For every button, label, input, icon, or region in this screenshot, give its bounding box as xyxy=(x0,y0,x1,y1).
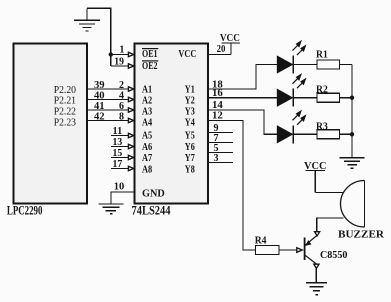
pin label 12 xyxy=(212,111,223,122)
label R2 xyxy=(316,85,328,96)
pin label 3 xyxy=(214,153,219,164)
svg-text:Y4: Y4 xyxy=(185,117,195,128)
svg-text:Y1: Y1 xyxy=(185,85,195,96)
wire P2.20 to A1 xyxy=(87,88,128,90)
pin arrow A6 xyxy=(128,144,133,148)
resistor R4 xyxy=(256,246,280,255)
transistor Q1 C8550 xyxy=(305,236,317,265)
svg-text:A3: A3 xyxy=(142,106,152,117)
ground for OE pins xyxy=(74,8,100,31)
ground for LED rail xyxy=(340,158,365,169)
svg-text:R4: R4 xyxy=(255,236,267,247)
MCU LPC2290 box xyxy=(14,44,88,204)
wire R1 to rail xyxy=(340,64,353,66)
wire stub A7 xyxy=(111,157,128,159)
wire R3 to rail xyxy=(340,133,353,135)
wire LED rail xyxy=(351,65,353,158)
pin label 10 xyxy=(114,182,125,193)
svg-text:16: 16 xyxy=(212,88,223,99)
wire P2.23 to A4 xyxy=(87,120,128,122)
svg-text:13: 13 xyxy=(113,137,123,148)
svg-text:P2.23: P2.23 xyxy=(54,118,76,129)
svg-text:Y8: Y8 xyxy=(185,164,195,175)
pin label 5 xyxy=(214,143,219,154)
LED D2 xyxy=(278,75,306,107)
pin label 17 xyxy=(113,159,123,170)
wire LED2 to R2 xyxy=(293,97,317,99)
pin name GND (pin 10) xyxy=(142,188,165,199)
pin name Y8 xyxy=(185,164,195,175)
pin arrow A7 xyxy=(128,155,133,159)
svg-text:20: 20 xyxy=(217,44,226,55)
svg-text:OE2: OE2 xyxy=(142,61,158,72)
svg-text:74LS244: 74LS244 xyxy=(132,204,172,218)
svg-text:R3: R3 xyxy=(316,121,328,132)
wire collector to ground xyxy=(315,268,317,282)
pin name Y1 xyxy=(185,85,195,96)
svg-text:P2.21: P2.21 xyxy=(54,96,76,107)
junction node rail-R2 xyxy=(350,96,354,100)
svg-text:39: 39 xyxy=(94,80,105,91)
label R4 xyxy=(255,236,267,247)
wire stub A8 xyxy=(111,168,128,170)
svg-text:6: 6 xyxy=(119,101,124,112)
pin arrow OE2 xyxy=(128,64,133,68)
label R1 xyxy=(316,49,328,60)
wire P2.21 to A2 xyxy=(87,99,128,101)
svg-text:OE1: OE1 xyxy=(142,49,158,60)
net label 42 xyxy=(94,111,105,122)
resistor R3 xyxy=(317,130,340,139)
wire pin 20 xyxy=(208,54,231,56)
buffer U1 74LS244 box xyxy=(135,44,209,204)
pin name A4 xyxy=(142,117,152,128)
pin label 18 xyxy=(212,80,223,91)
svg-text:19: 19 xyxy=(114,56,124,67)
wire LED3 to R3 xyxy=(293,133,317,135)
ground for pin 10 xyxy=(99,204,124,214)
pin label 1 xyxy=(119,45,124,56)
wire stub Y5 xyxy=(208,132,233,134)
wire Y1 pin 18 to LED1 xyxy=(208,65,278,90)
svg-text:11: 11 xyxy=(113,126,123,137)
resistor R2 xyxy=(317,93,340,102)
wire Y3 pin 14 to LED3 xyxy=(208,110,278,134)
svg-text:14: 14 xyxy=(212,100,223,111)
pin arrow A8 xyxy=(128,166,133,170)
svg-text:1: 1 xyxy=(119,45,124,56)
pin label 15 xyxy=(113,148,123,159)
wire GND pin 10 xyxy=(111,192,135,204)
pin name Y6 xyxy=(185,142,195,153)
pin name A6 xyxy=(142,142,152,153)
svg-text:VCC: VCC xyxy=(178,49,196,60)
svg-text:17: 17 xyxy=(113,159,123,170)
pin arrow A4 xyxy=(128,118,133,122)
svg-text:41: 41 xyxy=(94,101,105,112)
pin name A7 xyxy=(142,153,152,164)
label 74LS244 xyxy=(132,204,172,218)
LED D1 xyxy=(278,42,306,74)
pin name Y5 xyxy=(185,131,195,142)
pin arrow base xyxy=(297,248,302,253)
pin arrow A3 xyxy=(128,108,133,112)
pin label 6 xyxy=(119,101,124,112)
pin label 19 xyxy=(114,56,124,67)
svg-text:A7: A7 xyxy=(142,153,152,164)
pin arrow A5 xyxy=(128,133,133,137)
pin name A5 xyxy=(142,131,152,142)
pin label 4 xyxy=(119,90,124,101)
pin name A1 xyxy=(142,85,152,96)
svg-text:P2.22: P2.22 xyxy=(54,107,76,118)
wire stub A6 xyxy=(111,146,128,148)
port label P2.22 xyxy=(54,107,76,118)
svg-text:A5: A5 xyxy=(142,131,152,142)
wire stub Y7 xyxy=(208,152,233,154)
svg-text:Y5: Y5 xyxy=(185,131,195,142)
connector arrow buzzer-emitter xyxy=(315,232,320,236)
pin arrow A1 xyxy=(128,87,133,91)
pin name Y4 xyxy=(185,117,195,128)
svg-text:2: 2 xyxy=(119,80,124,91)
svg-text:A1: A1 xyxy=(142,85,152,96)
VCC rail for U1 xyxy=(220,33,240,44)
pin name A2 xyxy=(142,95,152,106)
pin label 2 xyxy=(119,80,124,91)
VCC bar symbol xyxy=(222,43,241,55)
wire stub A5 xyxy=(111,135,128,137)
wire buzzer bottom to transistor emitter xyxy=(317,218,344,232)
pin name OE2 (active low) xyxy=(142,60,158,72)
port label P2.20 xyxy=(54,85,76,96)
wire VCC to buzzer top xyxy=(315,192,343,194)
wire Y2 pin 16 to LED2 xyxy=(208,97,278,99)
pin name VCC (pin 20) xyxy=(178,49,196,60)
pin label 20 xyxy=(217,44,226,55)
svg-text:BUZZER: BUZZER xyxy=(338,230,385,241)
svg-text:42: 42 xyxy=(94,111,105,122)
wire pin 1 xyxy=(111,54,128,56)
port label P2.23 xyxy=(54,118,76,129)
wire stub Y6 xyxy=(208,142,233,144)
pin label 11 xyxy=(113,126,123,137)
pin name A3 xyxy=(142,106,152,117)
pin label 8 xyxy=(119,111,124,122)
pin name Y2 xyxy=(185,95,195,106)
label C8550 xyxy=(320,250,347,261)
connector arrow collector xyxy=(314,264,319,268)
port label P2.21 xyxy=(54,96,76,107)
svg-text:10: 10 xyxy=(114,182,125,193)
svg-text:A8: A8 xyxy=(142,164,152,175)
svg-text:Y3: Y3 xyxy=(185,106,195,117)
svg-text:A2: A2 xyxy=(142,95,152,106)
net label 39 xyxy=(94,80,105,91)
wire Y4 pin 12 to R4 xyxy=(208,121,256,251)
junction node on OE net xyxy=(109,52,113,56)
pin label 13 xyxy=(113,137,123,148)
svg-text:Y2: Y2 xyxy=(185,95,195,106)
pin arrow A2 xyxy=(128,97,133,101)
pin name OE1 (active low) xyxy=(142,48,158,60)
svg-text:R1: R1 xyxy=(316,49,328,60)
pin name A8 xyxy=(142,164,152,175)
svg-text:40: 40 xyxy=(94,90,105,101)
svg-text:LPC2290: LPC2290 xyxy=(7,204,43,218)
svg-text:C8550: C8550 xyxy=(320,250,347,261)
svg-text:GND: GND xyxy=(142,188,165,199)
pin label 16 xyxy=(212,88,223,99)
VCC bar symbol buzzer xyxy=(306,171,326,193)
pin arrow OE1 xyxy=(128,52,133,56)
wire P2.22 to A3 xyxy=(87,109,128,111)
VCC rail for buzzer xyxy=(304,161,327,172)
pin label 9 xyxy=(214,123,219,134)
wire LED1 to R1 xyxy=(293,64,317,66)
wire R4 to base xyxy=(279,249,297,251)
wire ground to OE vertical xyxy=(87,8,111,66)
LED D3 xyxy=(278,111,306,143)
svg-text:Y6: Y6 xyxy=(185,142,195,153)
svg-text:P2.20: P2.20 xyxy=(54,85,76,96)
wire R2 to rail xyxy=(340,97,353,99)
net label 41 xyxy=(94,101,105,112)
pin label 7 xyxy=(214,133,219,144)
svg-text:3: 3 xyxy=(214,153,219,164)
ground for transistor xyxy=(306,283,327,295)
label BUZZER xyxy=(338,230,385,241)
svg-text:4: 4 xyxy=(119,90,124,101)
pin label 14 xyxy=(212,100,223,111)
svg-text:15: 15 xyxy=(113,148,123,159)
svg-text:Y7: Y7 xyxy=(185,153,195,164)
pin name Y3 xyxy=(185,106,195,117)
label R3 xyxy=(316,121,328,132)
resistor R1 xyxy=(317,60,340,69)
svg-text:A4: A4 xyxy=(142,117,152,128)
junction node rail-R3 xyxy=(350,132,354,136)
svg-text:12: 12 xyxy=(212,111,223,122)
buzzer LS1 xyxy=(341,181,365,228)
wire stub Y8 xyxy=(208,162,233,164)
net label 40 xyxy=(94,90,105,101)
svg-text:8: 8 xyxy=(119,111,124,122)
pin name Y7 xyxy=(185,153,195,164)
svg-text:R2: R2 xyxy=(316,85,328,96)
label LPC2290 xyxy=(7,204,43,218)
svg-text:A6: A6 xyxy=(142,142,152,153)
wire pin 19 xyxy=(111,65,128,67)
